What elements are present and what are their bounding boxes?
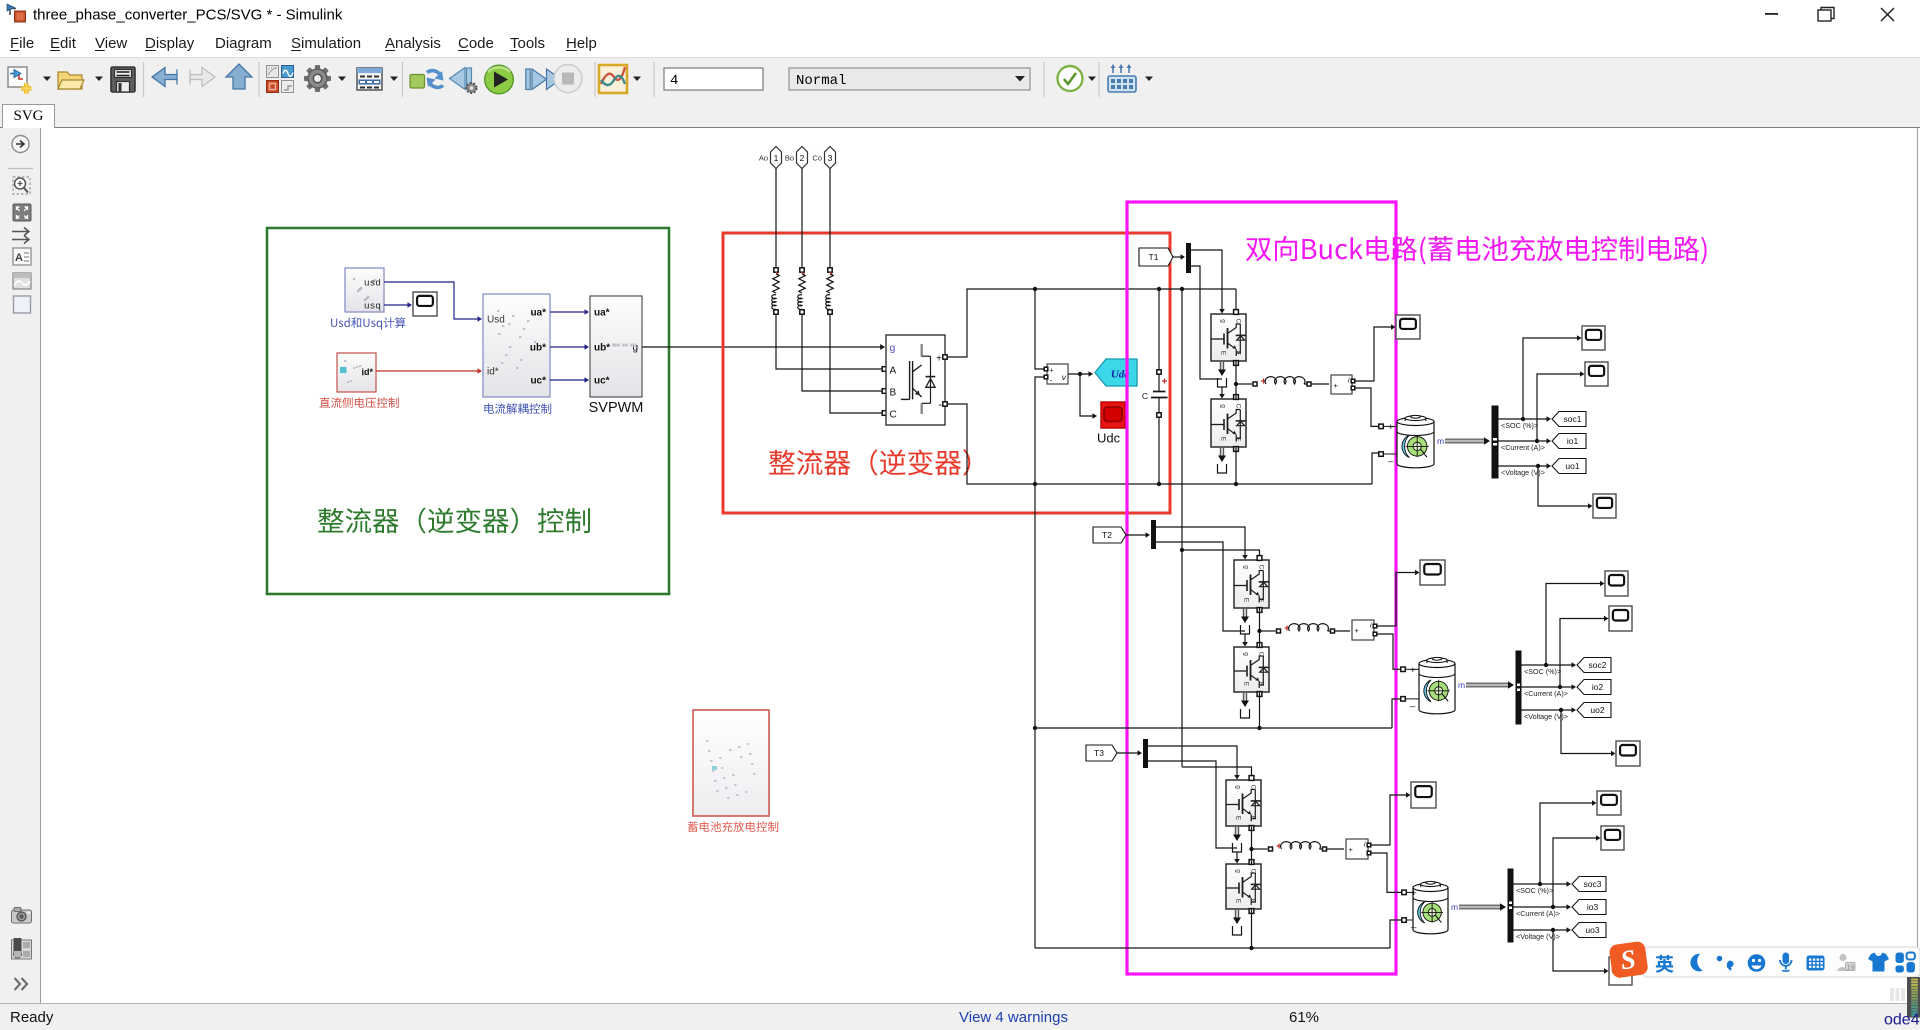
wire: bridge - -> DC- rail — [947, 404, 1379, 484]
wire: DC- rail down-feed — [1034, 484, 1036, 948]
battery B1 — [1379, 415, 1434, 467]
svg-text:E: E — [1220, 351, 1227, 356]
series RLC branch Bo (resistor + inductor) — [798, 268, 805, 314]
svg-text:+: + — [1349, 845, 1354, 854]
scope (I2) — [1420, 560, 1445, 585]
gate stub T2 lower (unconnected) — [1241, 693, 1250, 718]
svg-text:E: E — [1243, 682, 1250, 687]
wire: inductor -> current sensor — [1328, 629, 1351, 633]
wire: id* (red) -> 电流解耦控制 — [376, 368, 482, 374]
goto tag io3 — [1572, 900, 1606, 915]
junction: &lt;SOC (%)&gt; — [1521, 417, 1525, 421]
scope (io1) — [1585, 362, 1608, 386]
goto tag uo3 — [1572, 923, 1606, 938]
junction: DC+ feed T2 — [1180, 548, 1184, 552]
gate stub T1 upper-lower — [1218, 362, 1227, 399]
junction: &lt;SOC (%)&gt; — [1544, 663, 1548, 667]
svg-text:id*: id* — [361, 367, 373, 377]
wire: T1 midpoint -> inductor — [1236, 379, 1266, 387]
caption: 整流器（逆变器）控制 (green) — [318, 508, 590, 534]
svg-text:E: E — [1250, 899, 1257, 904]
wire: DC- rail (T2 level) — [1035, 727, 1392, 729]
svg-text:Normal: Normal — [796, 73, 846, 89]
junction: &lt;Voltage (V)&gt; — [1551, 928, 1555, 932]
wire: port Co down to RL branch — [829, 169, 831, 269]
IGBT T1 upper — [1211, 310, 1246, 366]
series RLC branch Co (resistor + inductor) — [826, 268, 833, 314]
wire: phase A -> bridge A — [776, 314, 887, 371]
scope (uo3) — [1609, 957, 1632, 985]
current measurement I1 — [1331, 375, 1355, 394]
wire: T2 midpoint -> inductor — [1260, 626, 1290, 634]
label m (B3) — [1451, 902, 1458, 912]
from tag T1 — [1139, 248, 1173, 266]
svg-text:E: E — [1220, 437, 1227, 442]
subsystem block: Usd和Usq计算 — [345, 268, 384, 312]
scope (io2) — [1609, 606, 1632, 631]
svg-text:-: - — [938, 399, 942, 411]
wire: port Bo down to RL branch — [801, 169, 803, 269]
battery B2 — [1401, 657, 1455, 713]
wire: I1 i -> scope — [1354, 324, 1396, 381]
battery B3 — [1402, 881, 1448, 933]
wire: T3 lower E -> DC- rail — [1251, 909, 1253, 948]
wire: I3 i -> scope — [1370, 792, 1411, 845]
inport 2 (Bo) — [785, 147, 808, 169]
goto tag soc1 — [1552, 412, 1586, 427]
svg-text:3: 3 — [828, 153, 833, 163]
wire: demux -> T2 lower gate — [1156, 542, 1245, 631]
svg-text:E: E — [1258, 682, 1265, 687]
svg-text:2: 2 — [800, 153, 805, 163]
IME: skin icon — [1868, 953, 1889, 972]
label: 蓄电池充放电控制 — [688, 821, 779, 832]
bus selector 2 — [1516, 651, 1521, 724]
scope (soc1) — [1582, 326, 1605, 350]
wire: T1 -> demux — [1173, 254, 1185, 260]
IME: 英 icon — [1656, 955, 1674, 973]
scope (soc3) — [1597, 791, 1621, 815]
svg-text:Bo: Bo — [785, 154, 794, 163]
goto tag io1 — [1552, 434, 1586, 449]
junction: T3 midpoint — [1249, 847, 1253, 851]
svg-text:E: E — [1235, 437, 1242, 442]
svg-text:io2: io2 — [1592, 682, 1604, 692]
svg-text:ua*: ua* — [594, 308, 610, 319]
svg-text:T2: T2 — [1102, 530, 1112, 540]
svg-text:Udc: Udc — [1097, 431, 1121, 446]
junction: DC- / capacitor — [1157, 482, 1161, 486]
junction: &lt;Current (A)&gt; — [1558, 685, 1562, 689]
svg-text:E: E — [1235, 899, 1242, 904]
wire: uc* -> SVPWM — [550, 377, 589, 383]
caption: 整流器（逆变器） (red) — [769, 449, 970, 475]
svg-text:uo2: uo2 — [1590, 705, 1604, 715]
restore button — [1818, 8, 1834, 22]
svg-text:g: g — [890, 342, 896, 354]
IME: emoji icon — [1748, 954, 1766, 972]
caption: 双向Buck电路(蓄电池充放电控制电路) — [1246, 236, 1707, 264]
svg-text:soc3: soc3 — [1584, 879, 1602, 889]
wire: bridge + -> DC+ rail — [947, 289, 1236, 357]
IME: keyboard icon — [1807, 956, 1825, 971]
junction: DC- feed T2 — [1033, 726, 1037, 730]
voltage measurement block — [1044, 364, 1068, 385]
svg-text:+: + — [1355, 626, 1360, 635]
wire: bus &lt;SOC (%)&gt; -> soc1 — [1498, 416, 1551, 422]
wire: inductor -> current sensor — [1320, 847, 1345, 851]
goto tag io2 — [1577, 680, 1611, 695]
wire: phase C -> bridge C — [830, 314, 887, 415]
svg-text:soc1: soc1 — [1564, 414, 1582, 424]
wire: bus &lt;Voltage (V)&gt; -> uo2 — [1521, 707, 1576, 713]
svg-text:<SOC (%)>: <SOC (%)> — [1501, 421, 1538, 430]
svg-text:<SOC (%)>: <SOC (%)> — [1516, 886, 1553, 895]
svg-text:ua*: ua* — [530, 308, 546, 319]
IME: grid icon — [1896, 953, 1915, 973]
label: &lt;Current (A)&gt; — [1516, 909, 1560, 918]
goto tag soc2 — [1577, 658, 1611, 673]
svg-text:C: C — [1142, 391, 1148, 401]
IGBT T2 upper — [1234, 556, 1269, 613]
annotation box: rectifier(inverter) region (red) — [723, 233, 1170, 513]
wire: DC- rail (T3 level) — [1035, 947, 1390, 949]
wire: T3 midpoint -> inductor — [1252, 844, 1282, 852]
svg-text:C: C — [1235, 319, 1242, 324]
wire: bus &lt;Current (A)&gt; -> io1 — [1498, 438, 1551, 444]
from tag T2 — [1093, 527, 1126, 543]
svg-text:<SOC (%)>: <SOC (%)> — [1524, 667, 1561, 676]
svg-text:g: g — [1243, 565, 1250, 569]
wire: I2 i -> scope — [1376, 570, 1420, 626]
wire: &lt;Current (A)&gt; branch -> scope — [1553, 835, 1601, 907]
wire: vmeas - tap — [1035, 377, 1045, 484]
wire: T1 upper E -> lower C — [1235, 361, 1237, 399]
svg-text:C: C — [1258, 565, 1265, 570]
wire: v -> display — [1080, 374, 1097, 419]
gate stub T3 upper-lower — [1233, 827, 1242, 864]
goto tag uo1 — [1552, 459, 1586, 474]
subsystem block: 直流侧电压控制 — [337, 353, 376, 392]
subsystem block: 电流解耦控制 — [483, 294, 550, 397]
bus signal B3 -> bus selector — [1459, 903, 1506, 910]
IGBT T2 lower — [1234, 643, 1269, 697]
label: &lt;Current (A)&gt; — [1501, 443, 1545, 452]
junction: &lt;Voltage (V)&gt; — [1559, 708, 1563, 712]
svg-text:+: + — [1050, 368, 1054, 375]
svg-text:usq: usq — [364, 301, 381, 312]
svg-text:B: B — [890, 388, 897, 399]
junction: &lt;Current (A)&gt; — [1551, 905, 1555, 909]
bus selector 1 — [1492, 406, 1498, 478]
from tag T3 — [1086, 745, 1117, 761]
label: 直流侧电压控制 — [320, 397, 399, 408]
svg-text:<Current (A)>: <Current (A)> — [1516, 909, 1560, 918]
label m (B1) — [1437, 436, 1444, 446]
svg-text:g: g — [1220, 404, 1227, 408]
svg-text:uo1: uo1 — [1565, 461, 1579, 471]
current measurement I3 — [1346, 839, 1371, 859]
svg-text:C: C — [1235, 404, 1242, 409]
svg-text:id*: id* — [487, 367, 499, 378]
label: SVPWM — [589, 400, 644, 416]
IME: user icon — [1839, 954, 1846, 961]
wire: demux -> T2 upper gate — [1156, 527, 1248, 560]
canvas right edge line — [1917, 128, 1919, 1003]
svg-text:io3: io3 — [1587, 902, 1599, 912]
wire: T2 lower E -> DC- rail — [1259, 692, 1261, 728]
svg-text:E: E — [1235, 351, 1242, 356]
svg-text:g: g — [1235, 785, 1242, 789]
IGBT T1 lower — [1211, 395, 1246, 452]
wire: bus &lt;Voltage (V)&gt; -> uo1 — [1498, 463, 1551, 469]
wire: SVPWM g -> IGBT bridge g — [642, 344, 885, 350]
wire: demux -> T3 upper gate — [1148, 746, 1240, 780]
svg-text:+: + — [1411, 888, 1417, 899]
junction: T1 midpoint — [1234, 382, 1238, 386]
svg-text:+: + — [1410, 665, 1416, 676]
svg-text:C: C — [890, 410, 897, 421]
IME: moon icon — [1690, 954, 1702, 972]
IGBT T3 lower — [1226, 860, 1261, 914]
label: &lt;Voltage (V)&gt; — [1524, 712, 1568, 721]
bus signal B2 -> bus selector — [1466, 681, 1514, 688]
svg-text:g: g — [1220, 319, 1227, 323]
junction: DC+ / vmeas — [1033, 287, 1037, 291]
demux T2 — [1151, 520, 1156, 549]
label: &lt;Current (A)&gt; — [1524, 689, 1568, 698]
junction: &lt;Voltage (V)&gt; — [1536, 464, 1540, 468]
svg-text:Ao: Ao — [759, 154, 768, 163]
wire: &lt;SOC (%)&gt; branch -> scope — [1540, 800, 1597, 884]
junction: DC- / vmeas — [1033, 482, 1037, 486]
svg-text:m: m — [1451, 902, 1458, 912]
wire: inductor -> current sensor — [1304, 382, 1329, 386]
inductor L3 — [1281, 842, 1321, 849]
label: Usd和Usq计算 — [331, 317, 405, 329]
goto tag: Udc (cyan) — [1095, 359, 1137, 386]
svg-text:C: C — [1258, 652, 1265, 657]
wire: DC+ rail down-feed — [1181, 289, 1183, 767]
junction: T3 lower E / rail — [1249, 946, 1253, 950]
wire: ua* -> SVPWM — [550, 309, 589, 315]
series RLC branch Ao (resistor + inductor) — [772, 268, 779, 314]
gate stub T3 lower (unconnected) — [1233, 910, 1242, 935]
svg-text:<Current (A)>: <Current (A)> — [1524, 689, 1568, 698]
label: Udc — [1097, 431, 1121, 446]
subsystem block: 蓄电池充放电控制 — [693, 710, 769, 816]
goto tag uo2 — [1577, 703, 1611, 718]
sogou logo — [1608, 941, 1648, 979]
svg-text:+: + — [1334, 381, 1339, 390]
wire: bus &lt;Current (A)&gt; -> io3 — [1513, 904, 1571, 910]
wire: &lt;SOC (%)&gt; branch -> scope — [1523, 335, 1582, 419]
svg-text:g: g — [1243, 652, 1250, 656]
inport 3 (Co) — [812, 147, 835, 169]
svg-text:uc*: uc* — [594, 376, 610, 387]
sogou IME bar — [1608, 941, 1920, 979]
junction: DC+ / capacitor — [1157, 287, 1161, 291]
bus signal B1 -> bus selector — [1445, 437, 1490, 444]
svg-text:C: C — [1250, 869, 1257, 874]
label: 电流解耦控制 — [484, 403, 551, 414]
scope (I1) — [1396, 315, 1420, 339]
label: &lt;SOC (%)&gt; — [1516, 886, 1553, 895]
wire: T3 -> demux — [1117, 750, 1142, 756]
label m (B2) — [1458, 680, 1465, 690]
svg-text:<Voltage (V)>: <Voltage (V)> — [1524, 712, 1568, 721]
wire: T3 battery - return — [1390, 920, 1402, 948]
scope (io3) — [1601, 826, 1624, 850]
svg-text:C: C — [1250, 785, 1257, 790]
IGBT T3 upper — [1226, 776, 1261, 831]
close button — [1881, 8, 1894, 21]
svg-text:usd: usd — [364, 278, 381, 289]
wire: T3 upper E -> lower C — [1251, 826, 1253, 864]
label: &lt;Voltage (V)&gt; — [1501, 468, 1545, 477]
wire: bus &lt;SOC (%)&gt; -> soc2 — [1521, 662, 1576, 668]
svg-text:ub*: ub* — [530, 343, 546, 354]
svg-text:E: E — [1258, 598, 1265, 603]
goto tag soc3 — [1572, 877, 1606, 892]
demux T3 — [1143, 739, 1148, 768]
scope (I3) — [1411, 782, 1436, 808]
wire: I2 -> battery + — [1376, 634, 1401, 669]
scope (usq) — [413, 292, 437, 316]
scope (uo2) — [1616, 741, 1640, 766]
svg-text:io1: io1 — [1567, 436, 1579, 446]
wire: &lt;Current (A)&gt; branch -> scope — [1537, 371, 1585, 441]
capacitor C — [1142, 289, 1168, 484]
subsystem block: SVPWM — [590, 296, 642, 397]
wire: bus &lt;Current (A)&gt; -> io2 — [1521, 684, 1576, 690]
wire: demux -> T3 lower gate — [1148, 761, 1237, 848]
Simulink app icon — [7, 4, 26, 22]
wire: &lt;SOC (%)&gt; branch -> scope — [1546, 581, 1605, 665]
wire: demux -> T1 lower gate — [1191, 266, 1222, 379]
wire: I3 -> battery + — [1370, 853, 1402, 892]
inductor L1 — [1265, 377, 1305, 384]
svg-text:1: 1 — [774, 153, 779, 163]
gate stub T2 upper-lower — [1241, 609, 1250, 647]
svg-text:4: 4 — [670, 73, 678, 89]
wire: DC+ -> T2 upper C — [1182, 550, 1260, 560]
svg-text:+: + — [1388, 422, 1394, 433]
IME: punctuation icon — [1717, 956, 1723, 962]
wire: bus &lt;SOC (%)&gt; -> soc3 — [1513, 881, 1571, 887]
display block: Udc (red) — [1101, 402, 1125, 428]
demux T1 — [1186, 243, 1191, 273]
svg-text:E: E — [1250, 816, 1257, 821]
svg-text:Co: Co — [812, 154, 822, 163]
wire: T2 -> demux — [1126, 532, 1150, 538]
svg-text:<Voltage (V)>: <Voltage (V)> — [1516, 932, 1560, 941]
svg-text:E: E — [1235, 816, 1242, 821]
junction: v out — [1078, 372, 1082, 376]
junction: DC+ / buck feed — [1180, 287, 1184, 291]
wire: &lt;Voltage (V)&gt; branch -> scope — [1561, 710, 1616, 756]
svg-text:three_phase_converter_PCS/SVG: three_phase_converter_PCS/SVG * - Simuli… — [33, 7, 343, 24]
bus selector 3 — [1508, 869, 1513, 942]
svg-text:<Current (A)>: <Current (A)> — [1501, 443, 1545, 452]
svg-text:Usd: Usd — [487, 315, 505, 326]
junction: &lt;Current (A)&gt; — [1535, 439, 1539, 443]
current measurement I2 — [1352, 620, 1377, 640]
wire: vmeas + tap — [1035, 289, 1045, 369]
inport 1 (Ao) — [759, 147, 782, 169]
colorful edge strip — [1907, 977, 1920, 1018]
minimize button — [1765, 13, 1778, 15]
label: &lt;Voltage (V)&gt; — [1516, 932, 1560, 941]
junction: T2 lower E / rail — [1257, 726, 1261, 730]
wire: I1 -> battery + — [1354, 388, 1379, 426]
svg-text:E: E — [1243, 598, 1250, 603]
svg-text:g: g — [1235, 869, 1242, 873]
svg-text:ub*: ub* — [594, 343, 610, 354]
scrollbar grip marks — [1890, 988, 1905, 1001]
wire: DC+ -> T3 upper C — [1182, 767, 1252, 780]
wire: T1 lower E -> DC- rail — [1235, 447, 1237, 484]
scope (uo1) — [1593, 494, 1616, 518]
wire: phase B -> bridge B — [802, 314, 887, 393]
inductor L2 — [1289, 624, 1329, 631]
svg-text:+: + — [936, 354, 942, 365]
svg-text:m: m — [1458, 680, 1465, 690]
annotation box: rectifier(inverter) control region (green) — [267, 228, 669, 594]
wire: bus &lt;Voltage (V)&gt; -> uo3 — [1513, 927, 1571, 933]
svg-text:A: A — [15, 252, 23, 264]
wire: vmeas v output — [1068, 371, 1093, 377]
gate stub T1 lower (unconnected) — [1218, 448, 1227, 473]
junction: &lt;SOC (%)&gt; — [1538, 882, 1542, 886]
wire: demux -> T1 upper gate — [1191, 250, 1225, 314]
wire: T2 upper E -> lower C — [1259, 608, 1261, 647]
label: &lt;SOC (%)&gt; — [1524, 667, 1561, 676]
junction: T2 midpoint — [1257, 629, 1261, 633]
annotation box: bidirectional buck region (magenta) — [1127, 202, 1396, 974]
wire: usq -> scope — [384, 302, 412, 308]
svg-text:<Voltage (V)>: <Voltage (V)> — [1501, 468, 1545, 477]
label: &lt;SOC (%)&gt; — [1501, 421, 1538, 430]
wire: &lt;Current (A)&gt; branch -> scope — [1560, 616, 1609, 687]
svg-text:SVPWM: SVPWM — [589, 400, 644, 416]
svg-text:T1: T1 — [1149, 252, 1159, 262]
svg-text:uo3: uo3 — [1585, 925, 1599, 935]
svg-text:A: A — [890, 366, 897, 377]
scope (soc2) — [1605, 571, 1628, 596]
svg-text:-: - — [1050, 376, 1053, 385]
wire: T2 battery - return — [1392, 699, 1401, 728]
svg-text:T3: T3 — [1094, 748, 1104, 758]
svg-text:m: m — [1437, 436, 1444, 446]
svg-text:uc*: uc* — [530, 376, 546, 387]
universal bridge (IGBT) block — [886, 335, 947, 425]
svg-text:soc2: soc2 — [1589, 660, 1607, 670]
wire: port Ao down to RL branch — [775, 169, 777, 269]
wire: &lt;Voltage (V)&gt; branch -> scope — [1553, 930, 1609, 974]
wire: ub* -> SVPWM — [550, 344, 589, 350]
wire: usd -> 电流解耦控制 Usd input — [384, 282, 482, 322]
IME: mic icon — [1783, 953, 1790, 965]
junction: DC- / T1 lower E — [1234, 482, 1238, 486]
wire: &lt;Voltage (V)&gt; branch -> scope — [1538, 466, 1593, 509]
